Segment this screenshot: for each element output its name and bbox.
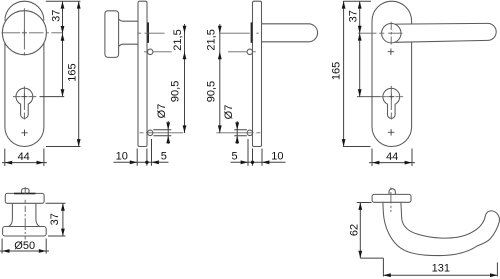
ext line flange bottom fig6 bbox=[357, 202, 372, 204]
svg-text:5: 5 bbox=[232, 151, 238, 163]
dim rose-to-cyl line fig4 bbox=[359, 33, 361, 96]
svg-text:131: 131 bbox=[432, 262, 450, 274]
plate P4 (stadium 44x165, right edge hidden behind grip) bbox=[372, 1, 412, 146]
dim knob-to-cyl line bbox=[62, 33, 64, 96]
bottom ext lines fig2 bbox=[137, 139, 151, 166]
Ø7 dim line fig3 bbox=[236, 121, 238, 144]
svg-text:10: 10 bbox=[116, 151, 128, 163]
ext line flange bottom fig5 bbox=[46, 202, 66, 204]
dim 44 ext lines fig4 bbox=[372, 149, 412, 167]
svg-text:90,5: 90,5 bbox=[170, 81, 182, 102]
hole1 centerline fig2 bbox=[144, 51, 172, 53]
plate P1 (stadium 44x165, sides hidden behind knob) bbox=[5, 1, 44, 146]
arrows fig6 bbox=[358, 203, 497, 278]
Ø50 ext lines bbox=[2, 239, 46, 254]
cylinder crosshair cross bbox=[21, 94, 27, 100]
knob centerline horizontal segments bbox=[2, 32, 64, 34]
arrows fig1 bbox=[5, 1, 81, 164]
centerline fig6 bbox=[390, 188, 392, 213]
screw hole bump bottom fig3 bbox=[247, 130, 253, 136]
FIG1 dimensions bbox=[2, 1, 80, 166]
ext line grip bottom fig6 bbox=[360, 257, 383, 259]
plate bar side fig3 bbox=[253, 1, 262, 146]
dim 165 line bbox=[78, 1, 80, 146]
knob head side bbox=[105, 11, 119, 58]
dim 62 line fig6 bbox=[359, 203, 361, 259]
arrows fig5 bbox=[2, 203, 65, 253]
lower screw cross fig4 bbox=[388, 129, 394, 135]
ext line bottom fig4 bbox=[343, 146, 371, 148]
rose flange fig6 bbox=[372, 194, 411, 202]
svg-text:62: 62 bbox=[348, 224, 360, 236]
svg-text:44: 44 bbox=[386, 151, 398, 163]
cylinder centerline horizontal fig4 bbox=[380, 96, 403, 98]
ext line base bottom fig5 bbox=[48, 235, 66, 237]
bottom ext lines fig3 bbox=[248, 139, 262, 166]
knob center cross bbox=[22, 30, 27, 35]
FIG3: lever plate side view bbox=[247, 1, 318, 146]
lower screw cross fig1 bbox=[21, 130, 27, 136]
svg-text:21,5: 21,5 bbox=[172, 29, 184, 50]
lever grip front bbox=[395, 23, 497, 42]
svg-text:Ø7: Ø7 bbox=[223, 105, 235, 120]
screw hole bump top bbox=[147, 49, 153, 55]
arrows fig4 bbox=[342, 1, 412, 164]
plate bar side bbox=[138, 1, 147, 146]
FIG2: knob plate side view bbox=[105, 1, 153, 146]
dim 44 line bbox=[2, 162, 47, 164]
spindle nub fig5 bbox=[22, 189, 29, 194]
knob K1 circle Ø50 bbox=[2, 11, 46, 55]
upper screw cross fig4 bbox=[388, 49, 394, 55]
ext line top fig4 bbox=[343, 0, 371, 2]
rose centerline horizontal fig4 bbox=[358, 32, 403, 34]
ext line 131 right fig6 bbox=[496, 262, 498, 276]
svg-text:90,5: 90,5 bbox=[206, 81, 218, 102]
bottom dim line fig3 bbox=[231, 161, 286, 163]
dim 44 ext lines bbox=[5, 149, 44, 167]
svg-text:Ø7: Ø7 bbox=[156, 104, 168, 119]
bottom dim line fig2 bbox=[114, 161, 169, 163]
svg-text:Ø50: Ø50 bbox=[14, 240, 35, 252]
dim 165 line fig4 bbox=[343, 1, 345, 146]
dim line 21,5 / 90,5 fig2 bbox=[184, 24, 186, 133]
svg-text:10: 10 bbox=[271, 151, 283, 163]
Ø7 ext lines fig2 bbox=[153, 130, 171, 136]
ext line bottom bbox=[46, 146, 80, 148]
knob base Ø50 fig5 bbox=[3, 227, 47, 237]
cylinder centerline vertical segments bbox=[23, 86, 25, 119]
cylinder centerline horizontal segments bbox=[13, 96, 36, 98]
dim 131 line fig6 bbox=[383, 274, 497, 276]
Ø7 dim line fig2 bbox=[167, 121, 169, 144]
spindle black band fig3 bbox=[251, 22, 253, 42]
svg-text:37: 37 bbox=[49, 213, 61, 225]
cylinder crosshair cross fig4 bbox=[388, 94, 394, 100]
knob flange fig5 bbox=[5, 193, 44, 203]
hole1 centerline fig3 bbox=[228, 51, 256, 53]
screw hole bump bottom bbox=[147, 130, 153, 136]
hole2 centerline fig3 bbox=[216, 132, 260, 134]
spindle nub fig6 bbox=[389, 189, 395, 195]
knob neck fig5 bbox=[9, 203, 40, 226]
lever grip profile fig6 bbox=[383, 202, 500, 255]
svg-text:165: 165 bbox=[66, 63, 78, 81]
ext at cylinder center fig4 bbox=[357, 96, 380, 98]
euro cylinder hole C4 bbox=[383, 88, 400, 118]
svg-text:21,5: 21,5 bbox=[205, 29, 217, 50]
svg-text:165: 165 bbox=[330, 62, 342, 80]
hole2 centerline fig2 bbox=[140, 132, 184, 134]
ext line 131 left fig6 bbox=[382, 258, 384, 276]
axis centerline fig2 bbox=[137, 32, 164, 34]
dim 37 line bbox=[62, 1, 64, 33]
spindle black band fig2 bbox=[147, 22, 149, 42]
lever grip side fig3 bbox=[262, 24, 318, 42]
rose centerline vertical fig4 bbox=[390, 22, 392, 45]
Ø50 dim line bbox=[0, 250, 49, 252]
FIG5: knob side elevation bbox=[3, 189, 47, 236]
euro cylinder hole C1 bbox=[16, 88, 33, 118]
spindle thick segment fig5 bbox=[14, 193, 35, 195]
cylinder centerline vertical fig4 bbox=[390, 86, 392, 120]
rose circle fig4 bbox=[382, 24, 401, 43]
dim 44 line fig4 bbox=[369, 162, 415, 164]
screw hole bump top fig3 bbox=[247, 49, 253, 55]
knob neck bbox=[119, 19, 138, 47]
svg-text:5: 5 bbox=[161, 151, 167, 163]
Ø7 ext lines fig3 bbox=[234, 130, 247, 136]
dim line 21,5 / 90,5 fig3 bbox=[219, 24, 221, 133]
svg-text:44: 44 bbox=[18, 151, 30, 163]
svg-text:37: 37 bbox=[348, 10, 360, 22]
axis centerline fig3 bbox=[220, 32, 259, 34]
ext line top bbox=[46, 0, 81, 2]
FIG4: lever backplate front view bbox=[372, 1, 496, 146]
centerline fig5 bbox=[24, 187, 26, 240]
svg-text:37: 37 bbox=[50, 10, 62, 22]
knob centerline vertical segments bbox=[23, 8, 25, 55]
dim 37 line fig4 bbox=[359, 1, 361, 33]
dim 37 line fig5 bbox=[62, 203, 64, 236]
arrows fig3 bbox=[218, 26, 270, 164]
arrows fig2 bbox=[130, 26, 187, 164]
FIG6: lever handle side elevation bbox=[372, 189, 499, 256]
ext at cylinder center bbox=[40, 96, 65, 98]
